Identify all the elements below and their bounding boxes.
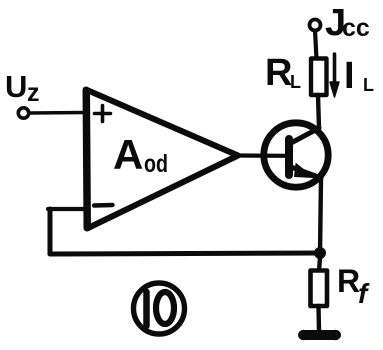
- svg-text:L: L: [290, 72, 301, 92]
- figure number digit 1: [143, 292, 150, 326]
- supply terminal node Jcc: [310, 20, 321, 31]
- wire: input terminal to op-amp noninverting input: [30, 111, 87, 115]
- wire: Rf to ground: [316, 306, 321, 331]
- op-amp U1 triangle: [87, 90, 238, 228]
- label Rf: [337, 263, 370, 309]
- label RL: [265, 52, 301, 94]
- wire: feedback left vertical: [48, 209, 53, 254]
- transistor Q1 emitter stroke: [291, 167, 321, 178]
- op-amp gain label Aod: [113, 131, 168, 178]
- current arrow IL: [333, 54, 337, 85]
- wire: junction node to Rf: [319, 258, 320, 271]
- svg-text:R: R: [337, 263, 360, 299]
- transistor Q1 emitter arrowhead: [295, 164, 314, 178]
- resistor RL: [311, 59, 327, 96]
- wire: emitter to junction node: [320, 178, 321, 253]
- op-amp plus input marker: [95, 106, 111, 122]
- junction node dot: [314, 247, 326, 259]
- svg-text:I: I: [344, 55, 355, 97]
- wire: feedback bottom horizontal: [50, 253, 320, 254]
- op-amp minus input marker: [94, 203, 113, 208]
- resistor Rf: [311, 271, 328, 307]
- ground: [303, 330, 336, 340]
- transistor Q1 collector stroke: [291, 128, 319, 143]
- wire: RL to collector: [318, 95, 319, 128]
- svg-text:R: R: [265, 52, 292, 94]
- wire: feedback to inverting input: [48, 207, 87, 211]
- wire: supply terminal to resistor RL: [315, 31, 317, 60]
- svg-text:od: od: [144, 150, 168, 178]
- svg-text:L: L: [363, 75, 374, 95]
- svg-text:U: U: [5, 69, 27, 104]
- transistor Q1 body circle: [264, 123, 328, 187]
- transistor Q1 base bar: [285, 139, 293, 175]
- svg-text:A: A: [113, 131, 143, 178]
- figure number 10 circle: [134, 283, 185, 334]
- svg-text:z: z: [27, 79, 40, 107]
- input terminal node Uz: [18, 108, 28, 118]
- supply label Jcc: [325, 2, 370, 44]
- op-amp left edge (thick): [86, 90, 87, 228]
- svg-text:cc: cc: [342, 14, 370, 42]
- wire: op-amp output to transistor base: [238, 153, 287, 158]
- figure number digit 0: [156, 292, 174, 324]
- label Uz: [5, 69, 40, 107]
- svg-text:f: f: [358, 278, 370, 309]
- label IL: [344, 55, 374, 97]
